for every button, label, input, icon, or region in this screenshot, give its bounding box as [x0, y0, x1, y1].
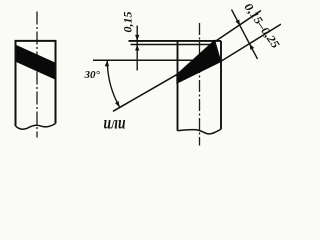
svg-text:или: или [104, 113, 126, 133]
arc arrow at slanted line [115, 101, 120, 107]
right bar centerline [199, 23, 201, 146]
band width upper arrow [236, 20, 241, 26]
arc arrow at horizontal line [105, 60, 109, 66]
0,15 upper arrow [135, 35, 139, 41]
band width lower arrow [250, 44, 255, 50]
top face extension line A [129, 40, 222, 42]
0,15 lower arrow [135, 45, 139, 51]
right bar break line [178, 129, 222, 134]
left bar centerline [36, 12, 38, 138]
right bar outline [178, 41, 222, 131]
left bar break line [16, 124, 56, 130]
left bar chamfer band [16, 45, 56, 79]
slanted 30 deg line [113, 74, 178, 111]
0,15 dimension line [136, 26, 138, 71]
second face line B [131, 44, 215, 46]
right bar chamfer band [177, 41, 221, 84]
30 degree angle arc [107, 60, 119, 107]
svg-text:30°: 30° [84, 69, 101, 81]
band width upper extension line U [216, 11, 261, 41]
band width lower extension line L [221, 24, 281, 61]
horizontal angle leg line [93, 59, 195, 61]
band width dimension line [232, 10, 258, 60]
left bar outline [15, 41, 57, 126]
svg-text:0,15: 0,15 [121, 12, 135, 33]
